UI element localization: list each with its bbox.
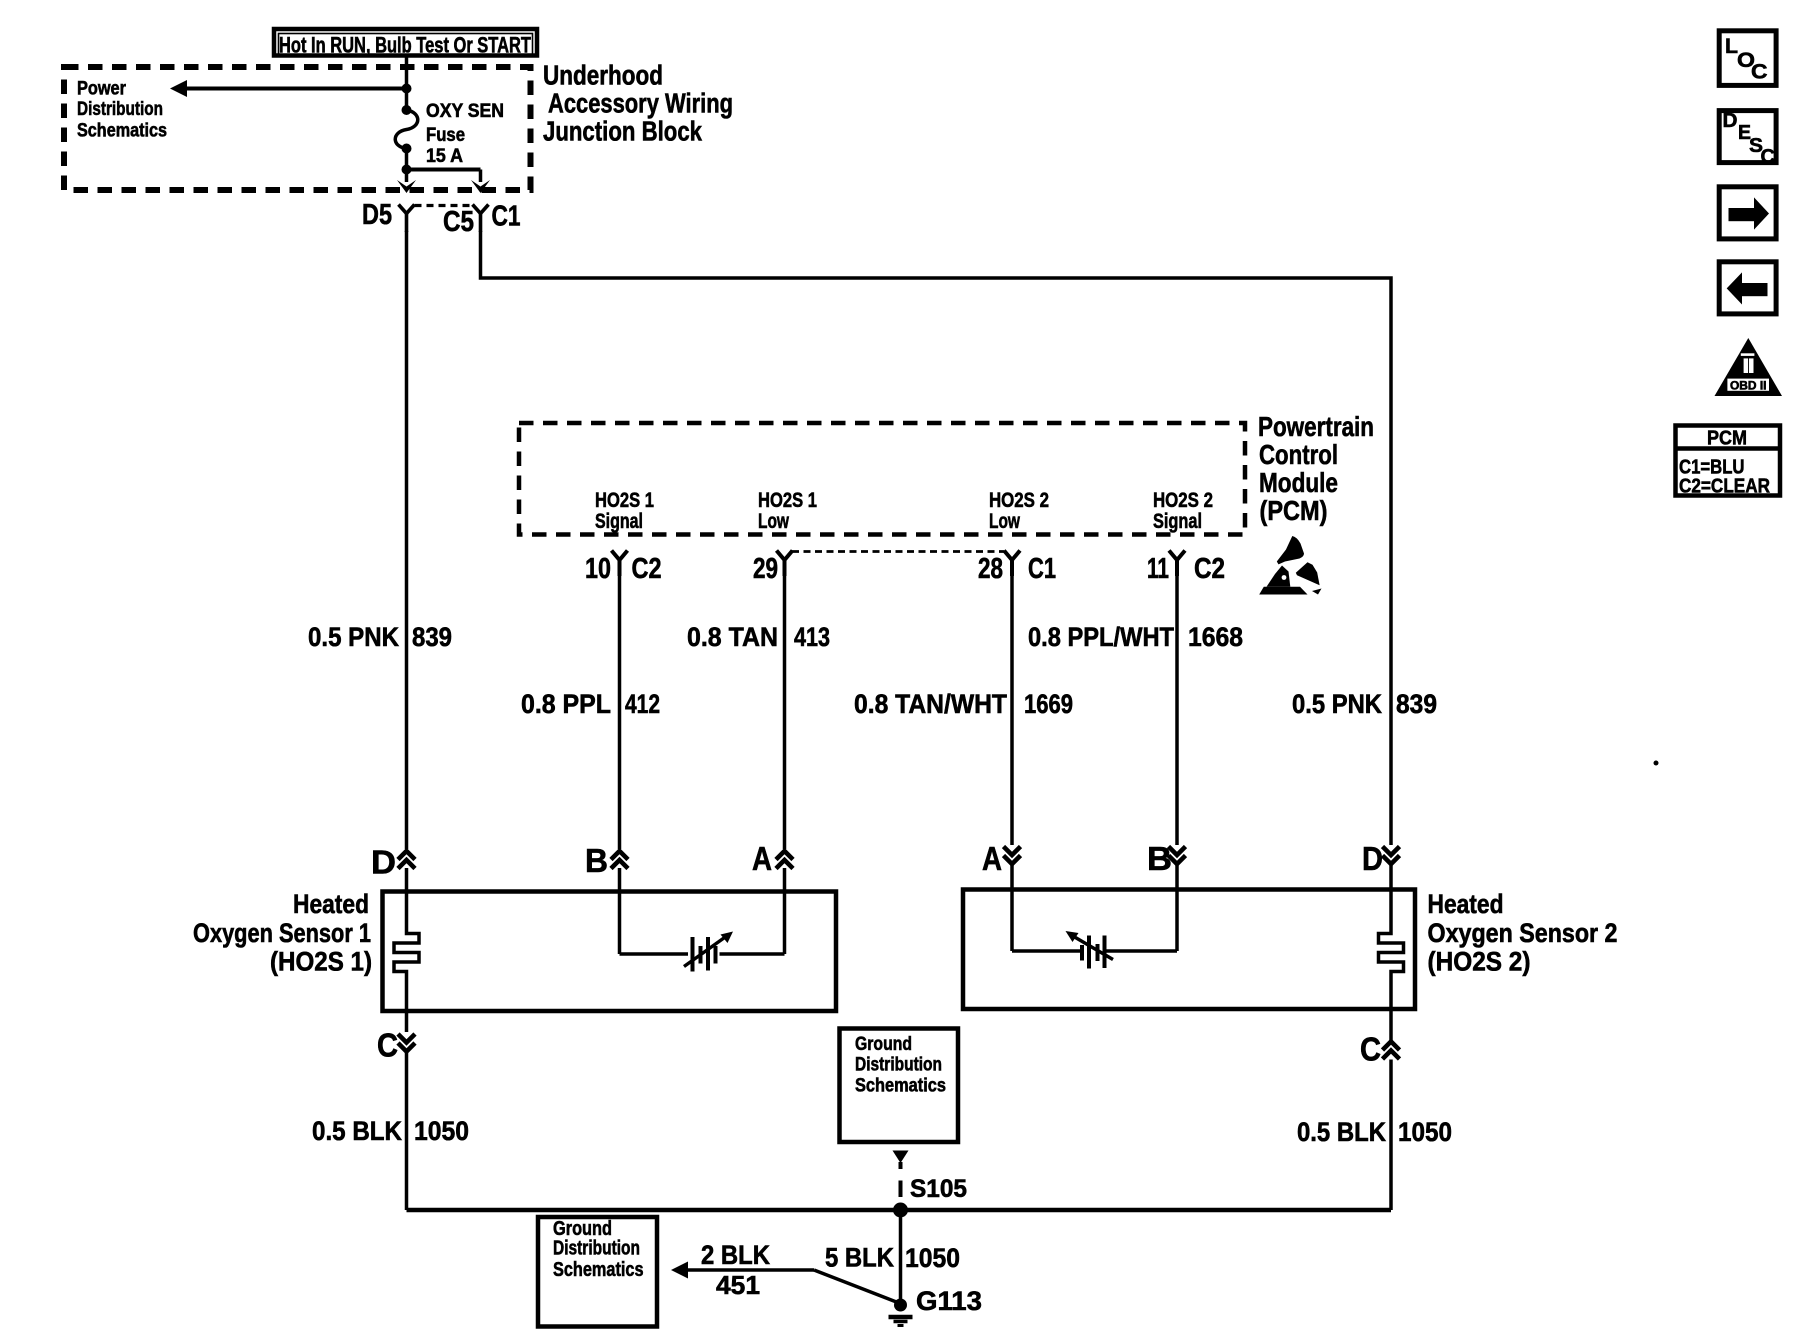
svg-text:Accessory Wiring: Accessory Wiring: [548, 88, 733, 119]
svg-text:HO2S 1: HO2S 1: [758, 489, 817, 512]
svg-text:Oxygen Sensor 2: Oxygen Sensor 2: [1428, 918, 1618, 948]
svg-text:B: B: [585, 842, 608, 879]
svg-text:0.5 BLK: 0.5 BLK: [1297, 1117, 1386, 1147]
svg-text:Junction Block: Junction Block: [543, 116, 702, 147]
svg-text:(HO2S 1): (HO2S 1): [270, 947, 372, 977]
svg-text:Schematics: Schematics: [77, 121, 167, 142]
svg-text:11: 11: [1147, 553, 1169, 585]
svg-text:0.5 BLK: 0.5 BLK: [312, 1116, 402, 1146]
svg-text:0.8 TAN: 0.8 TAN: [687, 622, 778, 652]
svg-text:839: 839: [1396, 689, 1437, 719]
svg-text:Low: Low: [758, 510, 789, 533]
svg-text:C1: C1: [1028, 553, 1056, 585]
svg-text:0.5 PNK: 0.5 PNK: [308, 622, 399, 652]
svg-text:OBD II: OBD II: [1730, 380, 1767, 392]
svg-text:S105: S105: [910, 1175, 967, 1203]
svg-text:B: B: [1147, 840, 1172, 877]
svg-text:1050: 1050: [1398, 1117, 1452, 1147]
svg-text:Hot In RUN, Bulb Test Or START: Hot In RUN, Bulb Test Or START: [279, 33, 531, 58]
svg-text:1050: 1050: [414, 1116, 469, 1146]
svg-text:451: 451: [716, 1270, 760, 1300]
svg-text:1669: 1669: [1024, 689, 1073, 719]
svg-text:Distribution: Distribution: [855, 1055, 942, 1076]
svg-text:Module: Module: [1259, 467, 1338, 498]
svg-text:HO2S 1: HO2S 1: [595, 489, 654, 512]
svg-text:412: 412: [625, 689, 660, 719]
svg-text:D5: D5: [362, 199, 392, 231]
svg-text:Underhood: Underhood: [543, 60, 663, 91]
svg-text:C1: C1: [492, 201, 521, 233]
svg-text:Heated: Heated: [1428, 889, 1504, 919]
svg-text:Distribution: Distribution: [77, 99, 163, 120]
svg-text:Ground: Ground: [855, 1034, 912, 1055]
svg-text:Signal: Signal: [1153, 510, 1202, 533]
svg-text:A: A: [752, 840, 772, 877]
svg-text:0.8 PPL: 0.8 PPL: [521, 689, 611, 719]
svg-text:HO2S 2: HO2S 2: [1153, 489, 1213, 512]
svg-text:C: C: [1761, 146, 1776, 168]
svg-text:Heated: Heated: [293, 889, 369, 919]
svg-text:Fuse: Fuse: [426, 125, 465, 146]
svg-text:C: C: [377, 1027, 398, 1064]
svg-text:Power: Power: [77, 78, 127, 99]
svg-text:10: 10: [585, 553, 611, 585]
svg-text:A: A: [982, 840, 1002, 877]
svg-text:C2: C2: [632, 553, 662, 585]
svg-text:D: D: [1362, 840, 1383, 877]
svg-text:5 BLK: 5 BLK: [825, 1243, 894, 1273]
svg-text:Control: Control: [1259, 439, 1338, 470]
svg-text:Powertrain: Powertrain: [1258, 411, 1374, 442]
svg-text:0.8 TAN/WHT: 0.8 TAN/WHT: [854, 689, 1007, 719]
svg-text:Schematics: Schematics: [553, 1259, 644, 1281]
svg-text:29: 29: [753, 553, 778, 585]
svg-text:G113: G113: [916, 1286, 982, 1316]
svg-text:C: C: [1360, 1031, 1381, 1068]
svg-text:1050: 1050: [905, 1243, 960, 1273]
svg-text:D: D: [1723, 110, 1738, 132]
svg-text:1668: 1668: [1188, 622, 1243, 652]
svg-text:C: C: [1751, 60, 1768, 83]
svg-text:Oxygen Sensor 1: Oxygen Sensor 1: [193, 918, 371, 948]
svg-text:D: D: [371, 844, 396, 881]
svg-text:0.8 PPL/WHT: 0.8 PPL/WHT: [1028, 622, 1174, 652]
svg-text:413: 413: [794, 622, 830, 652]
svg-text:(PCM): (PCM): [1260, 495, 1328, 526]
svg-text:C5: C5: [443, 206, 474, 238]
svg-text:C2=CLEAR: C2=CLEAR: [1679, 476, 1770, 498]
svg-text:OXY SEN: OXY SEN: [426, 101, 504, 122]
svg-text:PCM: PCM: [1707, 426, 1747, 449]
svg-text:15 A: 15 A: [426, 146, 463, 167]
svg-text:0.5 PNK: 0.5 PNK: [1292, 689, 1382, 719]
svg-text:839: 839: [412, 622, 452, 652]
svg-text:HO2S 2: HO2S 2: [989, 489, 1049, 512]
svg-text:(HO2S 2): (HO2S 2): [1428, 947, 1531, 977]
svg-text:Low: Low: [989, 510, 1020, 533]
svg-text:Distribution: Distribution: [553, 1238, 640, 1260]
svg-text:C2: C2: [1194, 553, 1225, 585]
svg-text:Schematics: Schematics: [855, 1076, 946, 1097]
svg-text:28: 28: [978, 553, 1003, 585]
svg-text:Signal: Signal: [595, 510, 643, 533]
svg-text:2 BLK: 2 BLK: [701, 1240, 770, 1270]
